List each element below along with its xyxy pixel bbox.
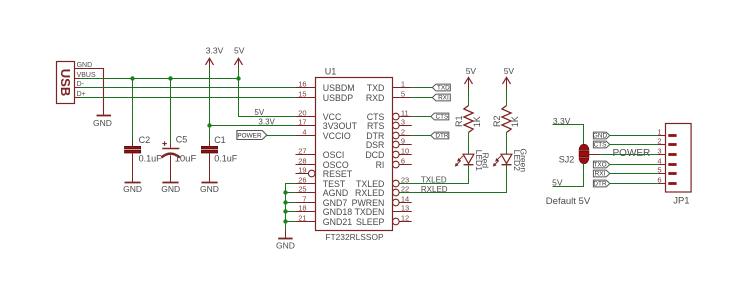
- label SJ2: [559, 154, 575, 164]
- svg-text:C2: C2: [139, 135, 151, 145]
- pin 12 SLEEP: [356, 214, 412, 228]
- svg-text:5: 5: [401, 90, 405, 99]
- svg-text:14: 14: [401, 195, 409, 204]
- wire bus to pin row14: [286, 221, 296, 223]
- net flag CTS (JP1): [593, 141, 609, 149]
- label Default 5V: [546, 196, 591, 207]
- svg-text:3: 3: [657, 146, 661, 155]
- svg-text:GND: GND: [161, 184, 180, 194]
- pin 14 PWREN: [352, 195, 412, 209]
- svg-text:5V: 5V: [466, 66, 477, 76]
- svg-text:25: 25: [298, 185, 306, 194]
- pin 3 RTS: [367, 118, 412, 132]
- svg-text:Green: Green: [519, 148, 529, 172]
- svg-text:TXLED: TXLED: [421, 175, 447, 184]
- junction VBUS/C5: [168, 76, 172, 80]
- pin 18 GND18: [296, 204, 353, 218]
- label C2: [139, 135, 151, 145]
- svg-text:0.1uF: 0.1uF: [214, 153, 238, 163]
- JP1 pin 2: [657, 136, 676, 145]
- svg-text:RTS: RTS: [367, 121, 385, 131]
- svg-text:GND: GND: [123, 184, 142, 194]
- svg-text:1: 1: [657, 127, 661, 136]
- svg-text:Red: Red: [481, 153, 491, 169]
- net flag DTR (JP1): [593, 180, 609, 188]
- junction bus row12: [283, 200, 287, 204]
- svg-text:USBDP: USBDP: [323, 93, 353, 103]
- wire TEST/AGND/GND bus: [286, 184, 296, 237]
- svg-text:FT232RLSSOP: FT232RLSSOP: [325, 232, 384, 242]
- USB pin GND: [75, 62, 93, 69]
- pin 20 VCC: [296, 109, 343, 123]
- label 3.3V net: [258, 118, 275, 127]
- svg-text:CTS: CTS: [436, 114, 449, 121]
- svg-text:DTR: DTR: [593, 181, 607, 188]
- wire USB GND to ground: [75, 69, 104, 115]
- svg-text:28: 28: [298, 157, 306, 166]
- wire 5V to VBUS: [238, 67, 240, 79]
- svg-text:RI: RI: [376, 160, 385, 170]
- supply 5V arrow (R2): [503, 66, 515, 90]
- wire 3.3V vertical: [209, 67, 211, 142]
- ground GND (C5): [161, 183, 180, 195]
- svg-text:R2: R2: [492, 116, 502, 128]
- svg-text:7: 7: [302, 195, 306, 204]
- JP1 pin 1: [657, 127, 676, 136]
- net flag TXD: [432, 84, 450, 92]
- value 1K (R2): [510, 116, 520, 127]
- pin 6 RI: [376, 157, 412, 171]
- connector JP1 body: [666, 124, 692, 193]
- supply 3.3V arrow: [206, 45, 224, 67]
- label U1: [325, 67, 337, 77]
- svg-text:GND21: GND21: [323, 217, 352, 227]
- wire GND to JP1: [610, 135, 658, 137]
- label R1: [454, 116, 464, 128]
- label RXLED: [421, 185, 448, 194]
- value 0.1uF C1: [214, 153, 238, 163]
- svg-text:15: 15: [298, 90, 306, 99]
- svg-text:TXO: TXO: [593, 162, 606, 169]
- USB pin D-: [75, 81, 85, 88]
- svg-text:26: 26: [298, 176, 306, 185]
- svg-text:6: 6: [657, 175, 661, 184]
- wire TXD pin1 to flag: [412, 87, 433, 89]
- svg-text:10: 10: [401, 147, 409, 156]
- wire TXO to JP1: [610, 164, 658, 166]
- ground GND (USB): [93, 116, 112, 128]
- svg-text:4: 4: [657, 156, 661, 165]
- svg-text:3: 3: [401, 118, 405, 127]
- LED LED2: [493, 154, 512, 166]
- label TXLED: [421, 175, 447, 184]
- capacitor C2: [125, 141, 141, 182]
- wire RXD pin5 to flag: [412, 97, 433, 99]
- pin 1 TXD: [367, 80, 412, 94]
- wire VBUS to C2: [132, 79, 134, 142]
- wire SJ2 bottom to 5V: [553, 163, 584, 186]
- pin 7 GND7: [296, 195, 348, 209]
- svg-text:5: 5: [657, 165, 661, 174]
- svg-text:RXLED: RXLED: [355, 188, 384, 198]
- wire D- to USBDM: [80, 87, 296, 89]
- resistor R2: [502, 90, 511, 154]
- wire RXLED pin22 to LED2: [399, 166, 506, 192]
- svg-text:16: 16: [298, 80, 306, 89]
- svg-text:RXLED: RXLED: [421, 185, 448, 194]
- svg-text:R1: R1: [454, 116, 464, 128]
- svg-text:Default 5V: Default 5V: [546, 196, 591, 207]
- net flag RXI (JP1): [593, 170, 609, 178]
- wire 3.3V to 3V3OUT pin17: [210, 125, 296, 127]
- label POWER net: [613, 148, 651, 159]
- svg-text:27: 27: [298, 147, 306, 156]
- ground GND (C1): [200, 183, 219, 195]
- junction 3.3V/3V3OUT: [207, 123, 211, 127]
- net flag GND (JP1): [593, 132, 610, 140]
- svg-text:OSCI: OSCI: [323, 150, 345, 160]
- svg-text:20: 20: [298, 109, 306, 118]
- wire CTS pin11 to flag: [412, 116, 431, 118]
- net flag CTS: [431, 113, 449, 121]
- ground GND (C2): [123, 183, 142, 195]
- svg-text:GND: GND: [593, 133, 608, 140]
- label LED2: [512, 150, 522, 172]
- pin 13 TXDEN: [355, 204, 412, 218]
- LED LED1: [455, 154, 474, 166]
- ground GND (U1): [276, 239, 295, 251]
- label C5: [176, 135, 188, 145]
- JP1 pin 6: [657, 175, 676, 184]
- pin 19 RESET: [296, 166, 353, 180]
- pin 22 RXLED: [355, 185, 412, 199]
- svg-text:3V3OUT: 3V3OUT: [323, 121, 358, 131]
- USB pin VBUS: [75, 72, 96, 79]
- svg-text:4: 4: [302, 128, 306, 137]
- svg-text:GND18: GND18: [323, 207, 352, 217]
- svg-text:1K: 1K: [472, 116, 482, 127]
- pin 25 AGND: [296, 185, 349, 199]
- svg-text:17: 17: [298, 118, 306, 127]
- junction bus row11: [283, 190, 287, 194]
- svg-text:JP1: JP1: [673, 196, 689, 207]
- svg-text:CTS: CTS: [594, 142, 607, 149]
- svg-text:9: 9: [401, 137, 405, 146]
- svg-text:1K: 1K: [510, 116, 520, 127]
- svg-text:RXD: RXD: [366, 93, 385, 103]
- svg-text:C5: C5: [176, 135, 188, 145]
- svg-text:21: 21: [298, 214, 306, 223]
- svg-text:19: 19: [298, 166, 306, 175]
- pin 16 USBDM: [296, 80, 355, 94]
- wire RXI to JP1: [610, 173, 658, 175]
- label R2: [492, 116, 502, 128]
- svg-text:USB: USB: [58, 69, 73, 96]
- capacitor C5 polarized: [161, 141, 180, 182]
- capacitor C1: [201, 141, 217, 182]
- net flag DTR: [431, 132, 449, 140]
- svg-text:AGND: AGND: [323, 188, 348, 198]
- resistor R1: [464, 90, 473, 154]
- wire CTS to JP1: [610, 144, 658, 146]
- svg-text:0.1uF: 0.1uF: [139, 153, 163, 163]
- svg-text:RXI: RXI: [438, 95, 449, 102]
- net flag POWER (VCCIO): [237, 131, 267, 140]
- wire bus to ground: [285, 230, 287, 238]
- svg-text:6: 6: [401, 157, 405, 166]
- JP1 pin 3: [657, 146, 676, 155]
- wire bus to pin row12: [286, 202, 296, 204]
- wire 3.3V to SJ2 top: [553, 125, 584, 145]
- wire 5V to VCC pin20: [239, 79, 296, 117]
- label 5V net: [254, 108, 264, 117]
- pin 9 DSR: [366, 137, 412, 151]
- svg-text:5V: 5V: [504, 66, 515, 76]
- svg-text:13: 13: [401, 204, 409, 213]
- svg-text:C1: C1: [214, 135, 226, 145]
- supply 5V arrow: [234, 45, 245, 67]
- value 0.1uF C2: [139, 153, 163, 163]
- svg-text:TXD: TXD: [437, 85, 450, 92]
- wire LED1 cathode: [468, 165, 470, 184]
- svg-text:5V: 5V: [234, 45, 245, 55]
- net flag RXI: [432, 94, 450, 102]
- svg-text:DTR: DTR: [435, 133, 449, 140]
- svg-text:GND: GND: [276, 240, 295, 250]
- junction VBUS/C2: [130, 76, 134, 80]
- svg-text:U1: U1: [325, 67, 337, 77]
- svg-text:5V: 5V: [254, 108, 264, 117]
- pin 28 OSCO: [296, 157, 349, 171]
- svg-text:SLEEP: SLEEP: [356, 217, 384, 227]
- label 3.3V (SJ2): [553, 116, 571, 126]
- svg-text:5V: 5V: [552, 177, 563, 187]
- value 1K (R1): [472, 116, 482, 127]
- pin 11 CTS: [367, 109, 412, 123]
- wire DTR to JP1: [610, 183, 658, 185]
- wire SJ2 middle stub: [589, 154, 600, 156]
- svg-text:DSR: DSR: [366, 140, 385, 150]
- svg-text:VCCIO: VCCIO: [323, 131, 351, 141]
- svg-text:3.3V: 3.3V: [258, 118, 275, 127]
- svg-text:11: 11: [401, 109, 409, 118]
- pin 27 OSCI: [296, 147, 345, 161]
- label 5V (SJ2): [552, 177, 563, 187]
- pin 5 RXD: [366, 90, 412, 104]
- label C1: [214, 135, 226, 145]
- solder jumper SJ2: [579, 144, 589, 163]
- wire LED2 cathode: [506, 165, 508, 193]
- wire TXLED pin23 to LED1: [399, 166, 468, 183]
- svg-text:12: 12: [401, 214, 409, 223]
- svg-text:USBDM: USBDM: [323, 83, 355, 93]
- svg-text:POWER: POWER: [237, 133, 262, 140]
- wire VBUS to C5: [170, 79, 172, 144]
- pin 23 TXLED: [356, 176, 412, 190]
- USB pin D+: [75, 91, 86, 98]
- wire DTR pin2 to flag: [412, 135, 431, 137]
- svg-text:RESET: RESET: [323, 169, 353, 179]
- wire POWER to VCCIO pin4: [267, 135, 296, 137]
- value Red (LED1): [481, 153, 491, 169]
- wire SJ2 to JP1 pin3 POWER: [600, 154, 666, 156]
- svg-text:2: 2: [657, 136, 661, 145]
- svg-text:DCD: DCD: [365, 150, 384, 160]
- label LED1: [474, 150, 484, 172]
- USB connector: [57, 62, 75, 104]
- junction VBUS/5V: [236, 76, 240, 80]
- pin 2 DTR: [366, 128, 411, 142]
- pin 21 GND21: [296, 214, 353, 228]
- svg-text:GND: GND: [200, 184, 219, 194]
- svg-text:RXI: RXI: [595, 171, 606, 178]
- svg-text:2: 2: [401, 128, 405, 137]
- wire D+ to USBDP: [80, 97, 296, 99]
- JP1 pin 5: [657, 165, 676, 174]
- JP1 pin 4: [657, 156, 676, 165]
- junction bus row14: [283, 219, 287, 223]
- junction bus row13: [283, 209, 287, 213]
- svg-text:10uF: 10uF: [175, 154, 197, 165]
- svg-text:TXD: TXD: [367, 83, 385, 93]
- pin 10 DCD: [365, 147, 411, 161]
- label JP1: [673, 196, 689, 207]
- value Green (LED2): [519, 148, 529, 172]
- svg-text:SJ2: SJ2: [559, 154, 575, 164]
- wire bus to pin row13: [286, 211, 296, 213]
- pin 15 USBDP: [296, 90, 354, 104]
- svg-text:3.3V: 3.3V: [206, 45, 224, 55]
- wire bus to pin row11: [286, 192, 296, 194]
- pin 17 3V3OUT: [296, 118, 358, 132]
- svg-text:18: 18: [298, 204, 306, 213]
- supply 5V arrow (R1): [465, 66, 477, 90]
- svg-text:TXDEN: TXDEN: [355, 207, 385, 217]
- svg-text:GND: GND: [93, 118, 112, 128]
- pin 26 TEST: [296, 176, 346, 190]
- svg-text:1: 1: [401, 80, 405, 89]
- IC U1 FT232RLSSOP body: [316, 78, 393, 231]
- wire VBUS: [80, 78, 239, 80]
- value 10uF C5: [175, 154, 197, 165]
- value FT232RLSSOP: [325, 232, 384, 242]
- svg-text:POWER: POWER: [613, 148, 651, 159]
- pin 4 VCCIO: [296, 128, 351, 142]
- net flag TXO (JP1): [593, 161, 609, 169]
